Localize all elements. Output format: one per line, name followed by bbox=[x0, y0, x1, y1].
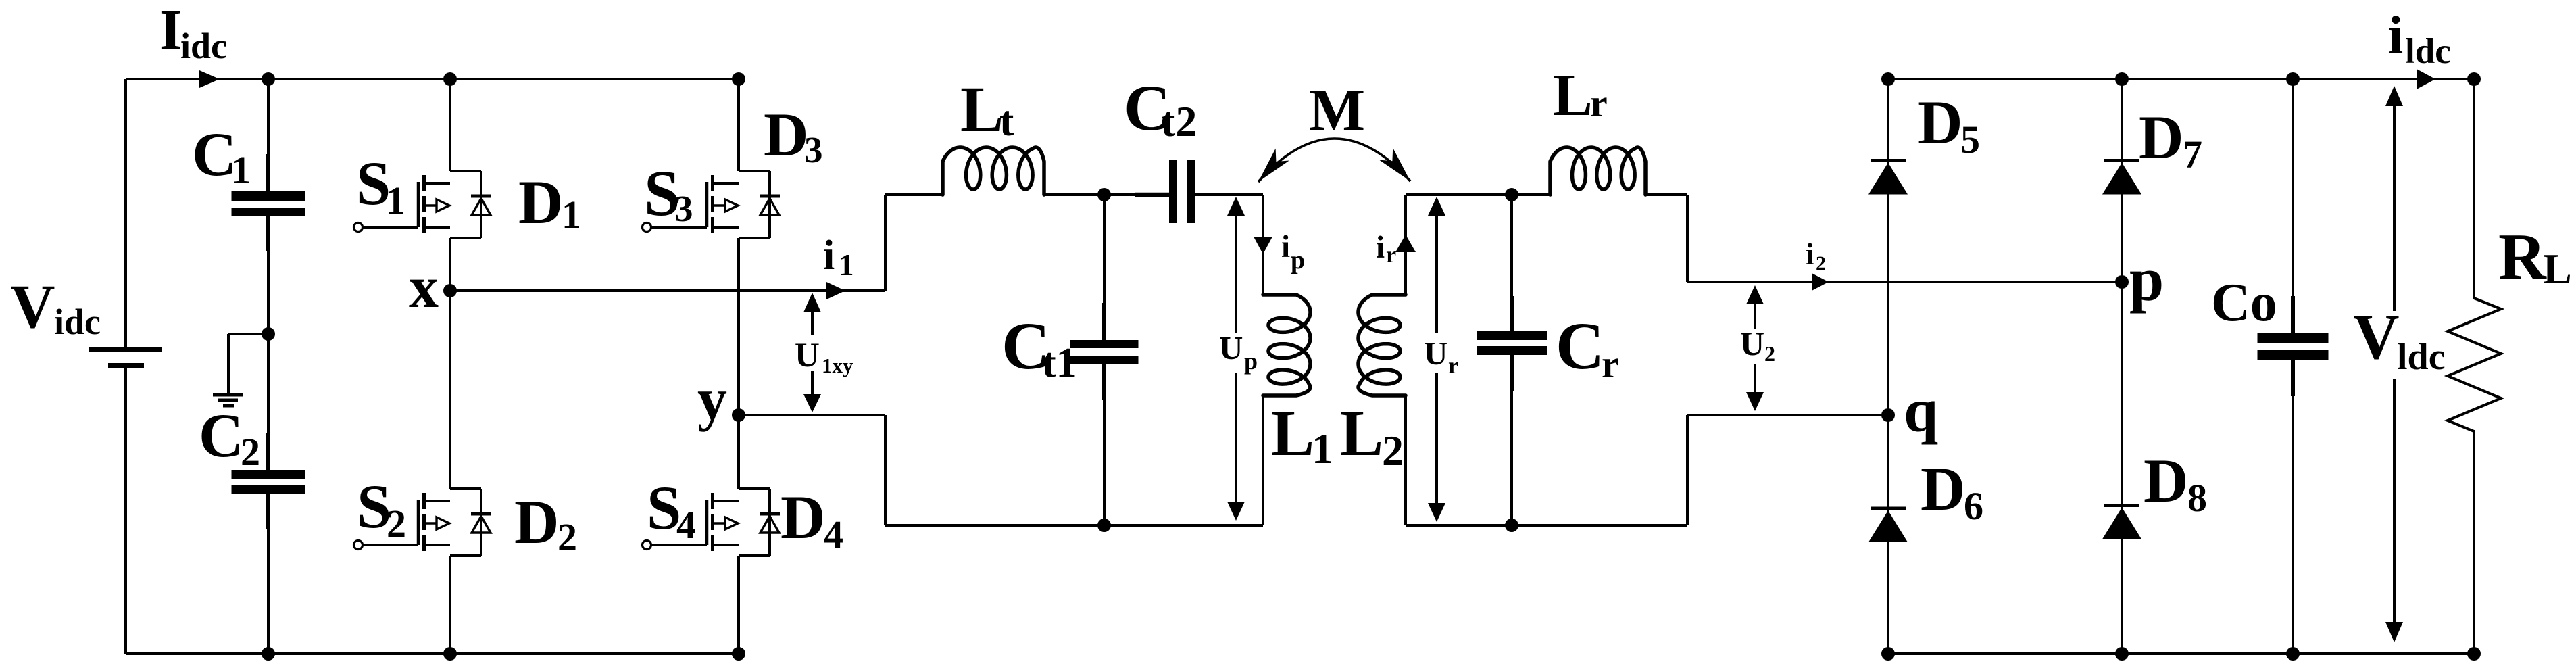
transistor S3 with body diode D3 bbox=[643, 100, 823, 238]
svg-text:ldc: ldc bbox=[2397, 336, 2446, 378]
diode D8 bbox=[2102, 446, 2207, 539]
wire leg1 lower segment bbox=[449, 291, 451, 489]
wire leg2 bottom segment bbox=[737, 556, 740, 654]
inductor L2 (rx coil) bbox=[1340, 295, 1406, 475]
svg-text:6: 6 bbox=[1964, 484, 1983, 528]
wire leg2 mid segment (to node y) bbox=[737, 238, 740, 415]
node C1-C2 midpoint bbox=[262, 327, 275, 341]
svg-text:2: 2 bbox=[1764, 341, 1775, 366]
node x bbox=[409, 255, 457, 320]
svg-text:V: V bbox=[10, 272, 55, 341]
svg-text:U: U bbox=[795, 337, 820, 375]
svg-text:R: R bbox=[2498, 220, 2547, 293]
svg-text:p: p bbox=[2129, 245, 2164, 314]
node y bbox=[697, 367, 745, 433]
inductor L1 (tx coil) bbox=[1263, 295, 1333, 473]
transistor S2 with body diode D2 bbox=[354, 472, 578, 559]
voltage arrow U2 bbox=[1740, 285, 1775, 411]
wire tank bottom rail bbox=[885, 524, 1263, 527]
svg-text:4: 4 bbox=[824, 512, 843, 556]
svg-text:1: 1 bbox=[562, 193, 581, 237]
svg-text:r: r bbox=[1590, 81, 1608, 125]
node top rail / leg S3-S4 bbox=[732, 72, 745, 86]
capacitor C2 bbox=[199, 334, 305, 654]
wire L1 branch upper (with current arrow ip) bbox=[1254, 195, 1305, 295]
voltage arrow U_1xy bbox=[795, 293, 853, 412]
svg-text:idc: idc bbox=[180, 26, 227, 66]
svg-text:i: i bbox=[1376, 230, 1385, 265]
node rect top / Co bbox=[2286, 72, 2300, 86]
svg-text:i: i bbox=[1806, 237, 1814, 271]
svg-text:D: D bbox=[1918, 88, 1962, 157]
svg-text:2: 2 bbox=[241, 430, 260, 474]
node rect top / RL bbox=[2467, 72, 2481, 86]
wire rx bottom rail bbox=[1406, 415, 1687, 525]
node top rail / leg S1-S2 bbox=[443, 72, 457, 86]
svg-text:D: D bbox=[1921, 454, 1965, 523]
node rect bottom / D8 leg bbox=[2115, 647, 2129, 661]
node Cr bottom bbox=[1505, 519, 1518, 532]
wire leg1 upper segment bbox=[449, 79, 451, 171]
svg-text:i: i bbox=[823, 233, 835, 279]
svg-text:D: D bbox=[2139, 103, 2183, 172]
svg-text:I: I bbox=[159, 0, 182, 62]
wire L2 branch lower bbox=[1404, 395, 1407, 525]
node bottom rail / leg S3-S4 bbox=[732, 647, 745, 661]
node rect top / D5 leg bbox=[1881, 72, 1895, 86]
diode D7 bbox=[2102, 103, 2202, 195]
voltage arrow Up bbox=[1219, 197, 1258, 521]
capacitor Co bbox=[2211, 79, 2329, 654]
svg-text:1: 1 bbox=[1312, 425, 1333, 473]
svg-text:D: D bbox=[514, 487, 559, 556]
mutual inductance M arc bbox=[1258, 78, 1410, 182]
transistor S1 with body diode D1 bbox=[354, 149, 582, 238]
svg-text:y: y bbox=[697, 367, 727, 433]
current arrow i2 bbox=[1806, 237, 1829, 291]
svg-text:L: L bbox=[1553, 63, 1593, 128]
node Ct1 top bbox=[1097, 188, 1111, 201]
node bottom rail / C2 bbox=[262, 647, 275, 661]
wire rx top rail left bbox=[1406, 193, 1552, 196]
svg-text:ldc: ldc bbox=[2405, 32, 2451, 71]
svg-text:3: 3 bbox=[674, 188, 693, 229]
wire L1 branch lower bbox=[1262, 395, 1264, 525]
capacitor C1 bbox=[192, 79, 305, 334]
dc source V_idc battery bbox=[10, 79, 162, 654]
wire D5-D6 leg bbox=[1887, 79, 1889, 654]
svg-text:2: 2 bbox=[387, 502, 406, 546]
svg-text:p: p bbox=[1244, 347, 1258, 375]
svg-text:U: U bbox=[1219, 329, 1243, 366]
svg-text:D: D bbox=[764, 100, 808, 169]
node p bbox=[2115, 245, 2164, 314]
resistor RL bbox=[2448, 79, 2572, 654]
svg-text:D: D bbox=[518, 168, 563, 237]
svg-text:r: r bbox=[1448, 354, 1458, 379]
svg-text:1: 1 bbox=[231, 148, 251, 192]
wire tank top rail left bbox=[885, 193, 944, 196]
voltage arrow V_ldc bbox=[2353, 86, 2446, 642]
svg-text:C: C bbox=[192, 120, 237, 189]
node bottom rail / leg S1-S2 bbox=[443, 647, 457, 661]
svg-text:L: L bbox=[1271, 397, 1314, 469]
wire leg2 lower segment bbox=[737, 415, 740, 489]
svg-text:8: 8 bbox=[2187, 476, 2207, 520]
inductor Lr bbox=[1550, 63, 1645, 195]
svg-text:C: C bbox=[199, 401, 243, 470]
svg-text:L: L bbox=[960, 73, 1004, 145]
wire leg1 mid segment (to node x) bbox=[449, 238, 451, 291]
node rect bottom / Co bbox=[2286, 647, 2300, 661]
svg-text:1: 1 bbox=[839, 248, 854, 282]
wire q (rx return to rectifier node q) bbox=[1687, 414, 1888, 416]
ground bbox=[213, 334, 268, 406]
current arrow i_ldc bbox=[2388, 6, 2451, 89]
svg-text:7: 7 bbox=[2183, 133, 2202, 176]
svg-text:L: L bbox=[1340, 397, 1383, 469]
voltage arrow Ur bbox=[1424, 197, 1458, 522]
svg-text:Co: Co bbox=[2211, 273, 2277, 333]
svg-text:2: 2 bbox=[1816, 252, 1826, 274]
wire rect top rail bbox=[1888, 78, 2474, 80]
svg-text:D: D bbox=[781, 483, 825, 552]
svg-text:2: 2 bbox=[1382, 427, 1404, 475]
capacitor Ct1 bbox=[1001, 195, 1139, 525]
wire tank top rail mid bbox=[1043, 193, 1170, 196]
current arrow I_idc bbox=[159, 0, 227, 88]
svg-text:4: 4 bbox=[676, 503, 696, 547]
svg-text:r: r bbox=[1602, 342, 1619, 386]
node Cr top bbox=[1505, 188, 1518, 201]
svg-text:i: i bbox=[1281, 229, 1290, 264]
svg-text:q: q bbox=[1904, 376, 1938, 445]
wire tank top rail right bbox=[1194, 193, 1263, 196]
wire node y to tank bbox=[739, 415, 885, 525]
capacitor Ct2 bbox=[1124, 72, 1197, 223]
wire rect bottom rail bbox=[1888, 652, 2474, 655]
svg-text:3: 3 bbox=[804, 129, 823, 170]
svg-text:C: C bbox=[1556, 308, 1604, 383]
wire bottom-left rail bbox=[126, 652, 739, 655]
svg-text:V: V bbox=[2353, 301, 2400, 373]
inductor Lt bbox=[943, 73, 1044, 195]
current arrow i1 bbox=[823, 233, 854, 299]
wire leg2 upper segment bbox=[737, 79, 740, 171]
svg-text:M: M bbox=[1309, 78, 1365, 143]
svg-text:p: p bbox=[1291, 246, 1305, 274]
diode D6 bbox=[1868, 454, 1983, 542]
svg-text:1: 1 bbox=[386, 178, 405, 222]
node rect bottom / RL bbox=[2467, 647, 2481, 661]
svg-text:x: x bbox=[409, 255, 439, 320]
svg-text:t2: t2 bbox=[1161, 97, 1197, 145]
wire leg1 bottom segment bbox=[449, 556, 451, 654]
node q bbox=[1881, 376, 1938, 445]
svg-text:D: D bbox=[2144, 446, 2188, 515]
svg-text:idc: idc bbox=[54, 302, 101, 342]
capacitor Cr bbox=[1477, 195, 1619, 525]
wire i2 (to rectifier node p) bbox=[1687, 281, 2122, 283]
diode D5 bbox=[1868, 88, 1980, 195]
node rect bottom / D6 leg bbox=[1881, 647, 1895, 661]
transistor S4 with body diode D4 bbox=[643, 473, 844, 556]
wire rx top rail right + riser bbox=[1644, 195, 1687, 282]
svg-text:1xy: 1xy bbox=[822, 354, 853, 377]
node Ct1 bottom bbox=[1097, 519, 1111, 532]
svg-text:i: i bbox=[2388, 6, 2403, 66]
svg-text:2: 2 bbox=[558, 515, 577, 559]
svg-text:U: U bbox=[1740, 325, 1764, 362]
wire L2 branch upper (with current arrow ir) bbox=[1376, 195, 1416, 295]
node top rail / C1 bbox=[262, 72, 275, 86]
node rect top / D7 leg bbox=[2115, 72, 2129, 86]
svg-text:5: 5 bbox=[1960, 118, 1980, 162]
svg-text:U: U bbox=[1424, 335, 1447, 372]
wire D7-D8 leg bbox=[2121, 79, 2123, 654]
svg-text:r: r bbox=[1386, 243, 1396, 268]
svg-text:t: t bbox=[999, 97, 1014, 145]
svg-text:L: L bbox=[2543, 245, 2572, 293]
svg-text:t1: t1 bbox=[1042, 340, 1077, 386]
wire top-left rail bbox=[126, 78, 739, 80]
wire node x to tank (i1 wire) bbox=[450, 195, 885, 291]
